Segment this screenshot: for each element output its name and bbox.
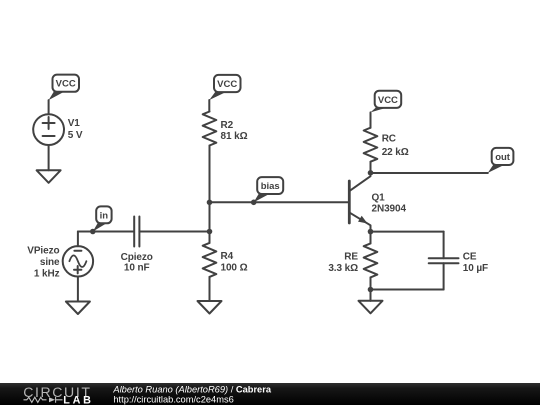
svg-text:V1: V1 <box>68 118 81 129</box>
svg-text:100 Ω: 100 Ω <box>221 263 248 274</box>
node cap tee <box>207 229 213 235</box>
svg-text:http://circuitlab.com/c2e4ms6: http://circuitlab.com/c2e4ms6 <box>113 394 233 404</box>
svg-text:Alberto Ruano (AlbertoR69) / C: Alberto Ruano (AlbertoR69) / Cabrera <box>112 385 271 395</box>
svg-text:in: in <box>100 210 109 221</box>
wire emitter to CE <box>371 231 444 233</box>
transistor Q1 emitter arrow <box>358 216 368 224</box>
svg-text:22 kΩ: 22 kΩ <box>382 147 409 158</box>
wire CE bottom to RE bottom <box>371 289 444 291</box>
node RE bottom <box>368 287 374 293</box>
wire RE bottom <box>370 277 372 300</box>
resistor RE <box>364 243 378 277</box>
wire R2 bottom to R4 top <box>209 146 211 243</box>
wire RC top lead <box>370 112 372 127</box>
transistor Q1 <box>348 181 351 223</box>
svg-text:RC: RC <box>382 134 396 145</box>
ground below RE <box>359 301 383 314</box>
svg-text:10 nF: 10 nF <box>124 262 150 273</box>
svg-text:Cpiezo: Cpiezo <box>121 252 153 263</box>
svg-text:R4: R4 <box>221 251 234 262</box>
wire V1 top <box>48 100 50 114</box>
wire capacitor to node <box>139 231 209 233</box>
ground below VPiezo <box>66 302 90 315</box>
svg-text:5 V: 5 V <box>68 130 83 141</box>
resistor R2 <box>203 112 217 146</box>
wire RE top lead <box>370 232 372 244</box>
flag VCC (R2) <box>209 75 240 100</box>
node emitter <box>368 229 374 235</box>
svg-text:bias: bias <box>261 181 280 192</box>
ground below R4 <box>198 301 222 314</box>
wire CE bottom lead <box>443 263 445 289</box>
svg-text:10 µF: 10 µF <box>463 263 488 274</box>
svg-text:out: out <box>495 152 511 163</box>
flag out <box>488 148 514 173</box>
resistor RC <box>364 128 378 162</box>
voltage source VPiezo <box>63 246 93 276</box>
svg-text:VCC: VCC <box>378 95 398 106</box>
ground below V1 <box>37 170 61 183</box>
logo squiggle resistor+diode <box>24 397 63 403</box>
node bias tee <box>207 200 213 206</box>
wire VPiezo bottom <box>77 277 79 302</box>
junction dots <box>90 170 373 292</box>
svg-text:Q1: Q1 <box>372 193 386 204</box>
wire CE top lead <box>443 232 445 259</box>
wire bias line <box>210 201 350 203</box>
svg-text:R2: R2 <box>221 120 234 131</box>
resistor R4 <box>203 243 217 277</box>
svg-text:CE: CE <box>463 251 477 262</box>
node in attach <box>90 229 96 235</box>
svg-text:VPiezo: VPiezo <box>27 246 59 257</box>
svg-text:RE: RE <box>344 252 358 263</box>
wire RE bottom node to ground <box>370 290 372 301</box>
svg-text:1 kHz: 1 kHz <box>34 268 60 279</box>
svg-text:VCC: VCC <box>217 79 237 90</box>
node collector <box>368 170 374 176</box>
wire R2 top lead <box>208 100 210 112</box>
wire out line <box>371 172 488 174</box>
capacitor CE <box>429 258 459 263</box>
wire source to capacitor <box>78 231 134 233</box>
wire V1 bottom <box>48 145 50 170</box>
voltage source V1 <box>33 114 64 145</box>
flag in <box>93 206 112 231</box>
svg-text:2N3904: 2N3904 <box>372 204 407 215</box>
wire R4 bottom <box>209 277 211 301</box>
footer bar <box>0 383 540 405</box>
svg-text:sine: sine <box>40 257 60 268</box>
flag bias <box>254 177 284 202</box>
node bias attach <box>251 200 257 206</box>
flag VCC (RC) <box>371 91 402 113</box>
svg-text:VCC: VCC <box>56 79 76 90</box>
svg-text:3.3 kΩ: 3.3 kΩ <box>328 263 358 274</box>
svg-text:LAB: LAB <box>63 394 94 405</box>
capacitor Cpiezo <box>134 217 139 247</box>
wire VPiezo top <box>77 232 79 247</box>
flag VCC (V1) <box>49 75 79 101</box>
wire RC bottom to collector node <box>370 162 372 173</box>
svg-text:81 kΩ: 81 kΩ <box>221 131 248 142</box>
